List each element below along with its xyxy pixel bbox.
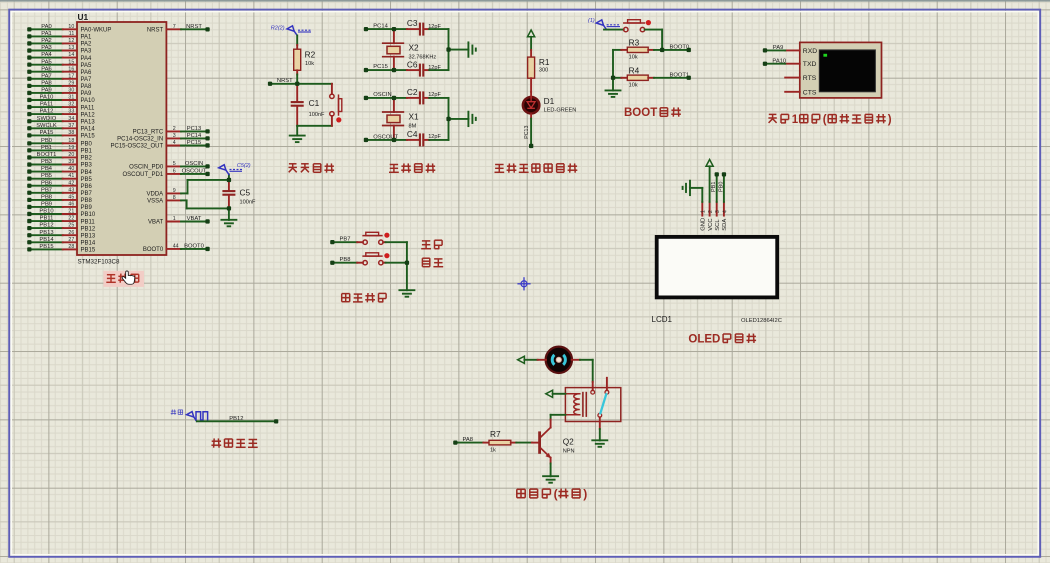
svg-text:11: 11 xyxy=(69,31,75,37)
svg-text:(: ( xyxy=(823,114,827,126)
svg-text:12pF: 12pF xyxy=(428,134,441,140)
svg-text:OLED12864I2C: OLED12864I2C xyxy=(741,318,782,324)
svg-text:32: 32 xyxy=(68,102,74,108)
svg-text:C3: C3 xyxy=(407,18,418,28)
svg-text:R2: R2 xyxy=(305,49,316,59)
svg-text:BOOT0: BOOT0 xyxy=(143,247,164,253)
svg-text:BOOT1: BOOT1 xyxy=(37,152,57,158)
svg-text:7: 7 xyxy=(173,24,176,30)
svg-text:PC15-OSC32_OUT: PC15-OSC32_OUT xyxy=(111,144,164,150)
svg-text:PB6: PB6 xyxy=(41,180,52,186)
svg-text:21: 21 xyxy=(68,209,74,215)
svg-text:PA6: PA6 xyxy=(41,66,52,72)
svg-text:12pF: 12pF xyxy=(428,24,441,30)
svg-text:40: 40 xyxy=(68,166,74,172)
svg-text:PC14: PC14 xyxy=(373,23,388,29)
svg-text:PB11: PB11 xyxy=(40,216,54,222)
svg-text:C4: C4 xyxy=(407,129,418,139)
svg-text:SCL: SCL xyxy=(715,219,721,231)
svg-text:R3: R3 xyxy=(629,37,640,47)
svg-text:PB14: PB14 xyxy=(39,237,54,243)
svg-text:VBAT: VBAT xyxy=(148,220,164,226)
svg-text:RTS: RTS xyxy=(803,75,817,82)
svg-text:X2: X2 xyxy=(409,43,420,53)
svg-text:CTS: CTS xyxy=(803,89,817,96)
svg-text:2: 2 xyxy=(173,126,176,132)
svg-text:PA2: PA2 xyxy=(41,38,52,44)
svg-text:LED-GREEN: LED-GREEN xyxy=(544,108,577,114)
svg-text:33: 33 xyxy=(68,109,74,115)
svg-text:PB4: PB4 xyxy=(41,166,53,172)
svg-text:SWCLK: SWCLK xyxy=(36,123,57,129)
svg-text:PC13: PC13 xyxy=(524,125,530,138)
svg-text:PB6: PB6 xyxy=(81,184,93,190)
svg-text:PA8: PA8 xyxy=(81,84,93,90)
svg-text:12pF: 12pF xyxy=(428,92,441,98)
svg-text:TXD: TXD xyxy=(803,61,817,68)
svg-text:BOOT0: BOOT0 xyxy=(184,244,204,250)
svg-text:BOOT: BOOT xyxy=(624,107,657,119)
svg-text:R2(2): R2(2) xyxy=(271,26,285,32)
svg-text:43: 43 xyxy=(68,187,74,193)
svg-text:R7: R7 xyxy=(490,429,501,439)
svg-text:PB0: PB0 xyxy=(41,138,52,144)
svg-text:RXD: RXD xyxy=(803,48,817,55)
svg-text:2: 2 xyxy=(708,210,714,213)
svg-text:PB8: PB8 xyxy=(340,257,351,263)
svg-text:OSCOUT: OSCOUT xyxy=(182,169,207,175)
svg-text:VSSA: VSSA xyxy=(147,199,163,205)
svg-text:PA1: PA1 xyxy=(81,35,93,41)
svg-text:NRST: NRST xyxy=(186,24,202,30)
svg-text:PB13: PB13 xyxy=(39,230,53,236)
svg-text:GND: GND xyxy=(701,218,707,231)
svg-text:PA5: PA5 xyxy=(41,59,52,65)
svg-text:PC15: PC15 xyxy=(187,140,202,146)
svg-text:29: 29 xyxy=(68,81,74,87)
svg-text:NRST: NRST xyxy=(277,78,293,84)
svg-text:20: 20 xyxy=(68,152,74,158)
svg-text:PA13: PA13 xyxy=(81,119,96,125)
svg-text:9: 9 xyxy=(173,188,176,194)
svg-text:100nF: 100nF xyxy=(240,200,256,206)
svg-text:44: 44 xyxy=(173,244,179,250)
svg-text:(: ( xyxy=(554,487,558,501)
svg-text:STM32F103C8: STM32F103C8 xyxy=(78,258,121,265)
svg-text:PA9: PA9 xyxy=(41,88,52,94)
svg-text:BOOT0: BOOT0 xyxy=(670,44,690,50)
svg-text:26: 26 xyxy=(68,230,74,236)
svg-text:PA3: PA3 xyxy=(41,45,52,51)
svg-text:(1): (1) xyxy=(588,18,595,24)
svg-text:PC15: PC15 xyxy=(373,64,388,70)
svg-text:10k: 10k xyxy=(305,61,314,67)
svg-text:SWDIO: SWDIO xyxy=(37,116,57,122)
svg-text:PB15: PB15 xyxy=(81,248,96,254)
svg-text:PB7: PB7 xyxy=(81,191,93,197)
svg-text:VDDA: VDDA xyxy=(147,192,164,198)
svg-text:PA8: PA8 xyxy=(41,81,52,87)
svg-text:PC13: PC13 xyxy=(187,126,202,132)
svg-text:NRST: NRST xyxy=(147,28,164,34)
svg-text:PA11: PA11 xyxy=(81,105,95,111)
svg-text:100nF: 100nF xyxy=(309,112,325,118)
svg-text:PB10: PB10 xyxy=(81,212,96,218)
svg-text:X1: X1 xyxy=(409,111,420,121)
svg-text:C5(2): C5(2) xyxy=(237,163,251,169)
svg-text:3: 3 xyxy=(173,133,176,139)
svg-text:PA10: PA10 xyxy=(40,95,54,101)
svg-text:OSCIN: OSCIN xyxy=(373,92,391,98)
svg-text:PB12: PB12 xyxy=(39,223,53,229)
svg-text:LCD1: LCD1 xyxy=(652,315,673,324)
svg-text:PB3: PB3 xyxy=(41,159,52,165)
svg-text:1: 1 xyxy=(701,210,707,213)
svg-text:PA7: PA7 xyxy=(81,77,93,83)
svg-text:10k: 10k xyxy=(629,55,638,61)
svg-text:12pF: 12pF xyxy=(428,65,441,71)
svg-text:PA4: PA4 xyxy=(41,52,52,58)
svg-text:45: 45 xyxy=(68,195,74,201)
svg-text:OLED: OLED xyxy=(688,333,720,345)
svg-text:10: 10 xyxy=(68,24,74,30)
svg-text:PB12: PB12 xyxy=(229,416,243,422)
svg-text:PA4: PA4 xyxy=(81,56,93,62)
svg-text:46: 46 xyxy=(68,202,74,208)
svg-text:12: 12 xyxy=(68,38,74,44)
svg-text:41: 41 xyxy=(68,173,74,179)
svg-text:PB9: PB9 xyxy=(41,202,52,208)
svg-text:PC14-OSC32_IN: PC14-OSC32_IN xyxy=(117,137,163,143)
svg-text:NPN: NPN xyxy=(563,449,575,455)
svg-text:PA8: PA8 xyxy=(463,437,474,443)
svg-text:PB4: PB4 xyxy=(81,170,93,176)
svg-text:30: 30 xyxy=(68,88,74,94)
svg-text:PA0-WKUP: PA0-WKUP xyxy=(81,28,112,34)
svg-text:PA3: PA3 xyxy=(81,49,93,55)
svg-text:PA9: PA9 xyxy=(81,91,93,97)
svg-text:PA1: PA1 xyxy=(41,31,52,37)
svg-text:PA15: PA15 xyxy=(40,130,54,136)
svg-text:PA7: PA7 xyxy=(41,73,52,79)
svg-text:PA6: PA6 xyxy=(81,70,93,76)
svg-text:14: 14 xyxy=(68,52,74,58)
svg-text:SDA: SDA xyxy=(722,219,728,231)
svg-text:PA10: PA10 xyxy=(772,59,786,65)
svg-text:C5: C5 xyxy=(240,187,251,197)
svg-text:OSCOUT_PD1: OSCOUT_PD1 xyxy=(123,172,164,178)
svg-text:): ) xyxy=(888,114,892,126)
svg-text:PB9: PB9 xyxy=(81,205,93,211)
svg-text:1k: 1k xyxy=(490,448,496,454)
svg-text:13: 13 xyxy=(68,45,74,51)
svg-text:4: 4 xyxy=(173,140,176,146)
svg-text:6: 6 xyxy=(173,169,176,175)
svg-text:PB13: PB13 xyxy=(81,233,96,239)
svg-text:PB8: PB8 xyxy=(81,198,93,204)
svg-text:R4: R4 xyxy=(629,65,640,75)
svg-text:PB7: PB7 xyxy=(340,237,351,243)
svg-text:PA14: PA14 xyxy=(81,127,96,133)
svg-text:8: 8 xyxy=(173,195,176,201)
svg-text:OSCIN_PD0: OSCIN_PD0 xyxy=(129,165,164,171)
svg-text:15: 15 xyxy=(68,59,74,65)
svg-text:PA12: PA12 xyxy=(81,112,96,118)
svg-text:10k: 10k xyxy=(629,83,638,89)
svg-text:U1: U1 xyxy=(78,12,89,22)
svg-text:PA2: PA2 xyxy=(81,42,93,48)
svg-text:1: 1 xyxy=(173,216,176,222)
svg-text:5: 5 xyxy=(173,161,176,167)
svg-text:VCC: VCC xyxy=(708,218,714,230)
svg-text:C6: C6 xyxy=(407,59,418,69)
svg-text:C2: C2 xyxy=(407,87,418,97)
svg-text:PA0: PA0 xyxy=(41,24,52,30)
svg-text:OSCIN: OSCIN xyxy=(185,161,203,167)
svg-text:): ) xyxy=(583,487,587,501)
svg-text:34: 34 xyxy=(68,116,74,122)
svg-text:39: 39 xyxy=(68,159,74,165)
svg-text:27: 27 xyxy=(68,237,74,243)
svg-text:R1: R1 xyxy=(539,57,550,67)
svg-text:4: 4 xyxy=(722,210,728,213)
svg-text:PC13_RTC: PC13_RTC xyxy=(133,130,164,136)
svg-text:PB15: PB15 xyxy=(39,244,53,250)
svg-text:42: 42 xyxy=(68,180,74,186)
svg-text:PB5: PB5 xyxy=(41,173,52,179)
svg-text:3: 3 xyxy=(715,210,721,213)
svg-text:PB0: PB0 xyxy=(718,182,724,192)
svg-text:PB12: PB12 xyxy=(81,226,96,232)
svg-text:PB8: PB8 xyxy=(41,195,52,201)
svg-text:19: 19 xyxy=(68,145,74,151)
svg-text:PB1: PB1 xyxy=(81,149,93,155)
svg-text:Q2: Q2 xyxy=(563,437,574,447)
svg-text:D1: D1 xyxy=(544,96,555,106)
svg-text:25: 25 xyxy=(68,223,74,229)
svg-text:VBAT: VBAT xyxy=(187,216,202,222)
svg-text:1: 1 xyxy=(792,114,799,126)
svg-text:PB1: PB1 xyxy=(41,145,52,151)
svg-text:PB14: PB14 xyxy=(81,241,96,247)
svg-text:PA11: PA11 xyxy=(40,102,53,108)
svg-text:C1: C1 xyxy=(309,98,320,108)
svg-text:38: 38 xyxy=(68,130,74,136)
svg-text:18: 18 xyxy=(68,138,74,144)
svg-text:28: 28 xyxy=(68,244,74,250)
svg-text:PB3: PB3 xyxy=(81,163,93,169)
svg-text:PB2: PB2 xyxy=(81,156,93,162)
svg-text:PB10: PB10 xyxy=(39,209,53,215)
svg-text:PB5: PB5 xyxy=(81,177,93,183)
svg-text:37: 37 xyxy=(68,123,74,129)
svg-text:PA9: PA9 xyxy=(773,45,784,51)
svg-text:PB7: PB7 xyxy=(41,187,52,193)
svg-text:PB1: PB1 xyxy=(711,182,717,192)
svg-text:17: 17 xyxy=(68,73,74,79)
svg-text:BOOT1: BOOT1 xyxy=(670,72,690,78)
svg-text:16: 16 xyxy=(68,66,74,72)
svg-text:22: 22 xyxy=(68,216,74,222)
svg-text:PA15: PA15 xyxy=(81,134,96,140)
svg-text:300: 300 xyxy=(539,68,548,74)
svg-text:31: 31 xyxy=(68,95,74,101)
svg-text:PB11: PB11 xyxy=(81,219,96,225)
svg-text:PA10: PA10 xyxy=(81,98,96,104)
svg-text:PA12: PA12 xyxy=(40,109,54,115)
svg-text:PC14: PC14 xyxy=(187,133,202,139)
svg-text:PA5: PA5 xyxy=(81,63,93,69)
svg-text:PB0: PB0 xyxy=(81,142,93,148)
